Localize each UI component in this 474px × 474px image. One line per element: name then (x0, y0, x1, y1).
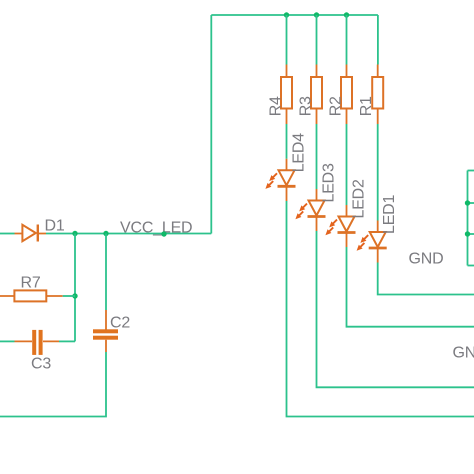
LED LED4 (265, 159, 295, 201)
LED LED2 (325, 205, 355, 247)
wire C3 left entry (0, 340, 15, 342)
capacitor C2 (93, 310, 118, 352)
node junction dot comb lower (465, 231, 470, 236)
wire GND comb branch 1 (468, 170, 474, 172)
svg-text:LED2: LED2 (351, 179, 368, 219)
wire left vertical leg from top bus down to VCC_LED (210, 15, 212, 234)
node junction dot comb upper (465, 200, 470, 205)
resistor R4 (281, 65, 292, 125)
node junction dot top bus R3 (314, 12, 319, 17)
wire GND comb vertical bus (467, 171, 469, 266)
wire C2 column upper (105, 234, 107, 311)
resistor R2 (341, 65, 352, 125)
svg-text:R1: R1 (358, 96, 375, 116)
svg-text:D1: D1 (45, 218, 65, 235)
wire VCC_LED left entry (0, 233, 15, 235)
wire LED2 bottom route (347, 247, 474, 327)
wire C3 to vertical x75 (59, 340, 75, 342)
capacitor C3 (15, 330, 60, 355)
svg-text:GND: GND (453, 345, 474, 362)
wire R4 column top (286, 15, 288, 65)
svg-text:R2: R2 (328, 96, 345, 116)
wire C2 column lower and bottom route (0, 352, 106, 417)
wire R7 to junction (63, 295, 75, 297)
wire LED1 bottom route (378, 263, 474, 295)
wire R2 to LED2 (346, 124, 348, 205)
node junction dot VCC label anchor (161, 231, 166, 236)
wire LED3 bottom route (317, 231, 474, 387)
svg-text:LED3: LED3 (321, 163, 338, 203)
node junction dot R7 output (72, 293, 77, 298)
wire R1 to LED1 (377, 124, 379, 221)
wire R3 to LED3 (316, 124, 318, 189)
svg-text:LED4: LED4 (291, 133, 308, 173)
wire R3 column top (316, 15, 318, 65)
svg-text:C3: C3 (31, 356, 51, 373)
diode D1 (15, 225, 47, 242)
LED LED3 (295, 189, 325, 231)
wire VCC_LED main horizontal (46, 233, 211, 235)
wire R1 column top (377, 15, 379, 65)
svg-text:VCC_LED: VCC_LED (120, 219, 192, 236)
LED LED1 (357, 221, 387, 263)
wire LED4 bottom route (287, 201, 474, 417)
wire R2 column top (346, 15, 348, 65)
wire vertical x75 from VCC to C3 row (74, 234, 76, 342)
resistor R7 (0, 290, 63, 301)
resistor R3 (311, 65, 322, 125)
wire R4 to LED4 (286, 124, 288, 159)
wire GND comb branch 2 (468, 202, 474, 204)
node junction dot top bus R2 (344, 12, 349, 17)
node junction dot VCC at x106 (103, 231, 108, 236)
wire GND comb branch 4 (468, 265, 474, 267)
node junction dot top bus R4 (284, 12, 289, 17)
node junction dot VCC at x75 (72, 231, 77, 236)
svg-text:R4: R4 (268, 96, 285, 116)
svg-text:R3: R3 (298, 96, 315, 116)
wire GND comb branch 3 (468, 233, 474, 235)
svg-text:GND: GND (409, 251, 444, 268)
wire top bus VCC_LED horizontal (211, 14, 378, 16)
svg-text:LED1: LED1 (381, 194, 398, 234)
svg-text:C2: C2 (110, 315, 130, 332)
resistor R1 (372, 65, 383, 125)
svg-text:R7: R7 (21, 275, 41, 292)
